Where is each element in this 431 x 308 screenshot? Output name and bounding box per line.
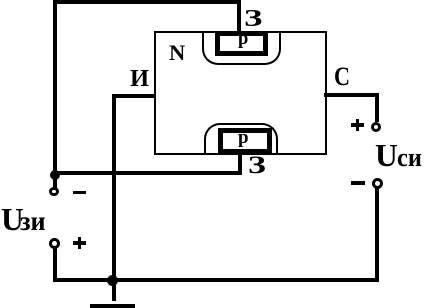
top p-region boundary [202, 33, 281, 65]
label p bottom [238, 128, 249, 147]
wire drain lead horizontal [324, 93, 379, 97]
wire stub junction to - terminal of Uzi [53, 175, 57, 188]
bottom gate p electrode rectangle [218, 128, 272, 154]
ground [90, 304, 135, 308]
wire source lead horizontal [112, 94, 156, 98]
wire top horizontal (gate bus) [53, 0, 242, 4]
label plus of Uzi [73, 241, 86, 245]
label plus of Usi [351, 123, 364, 127]
wire gate horizontal to bottom gate [53, 171, 242, 175]
wire source vertical down [112, 94, 116, 280]
label gate top Z [244, 7, 262, 32]
label minus of Usi [351, 181, 364, 185]
wire bottom rail [53, 278, 379, 282]
bottom p-region boundary [204, 123, 278, 154]
wire from + terminal of Uzi down [53, 248, 57, 280]
label source I [130, 67, 149, 92]
terminal - of Uzi [49, 187, 59, 197]
label gate bottom Z [248, 152, 266, 178]
wire from - terminal of Usi down [375, 188, 379, 280]
label Usi [375, 140, 398, 172]
wire left vertical (gate bus down) [53, 0, 57, 175]
transistor channel N-region body [154, 31, 327, 155]
wire bottom gate lead [238, 153, 243, 174]
label Uzi [1, 204, 24, 236]
wire top gate lead [237, 0, 241, 34]
terminal - of Usi [372, 178, 383, 189]
wire ground lead [112, 280, 116, 301]
terminal + of Uzi [49, 238, 60, 249]
terminal + of Usi [371, 122, 381, 132]
top gate p electrode rectangle [215, 31, 268, 56]
label minus of Uzi [73, 191, 87, 195]
label drain S [334, 64, 350, 90]
node junction dot gate/left [50, 170, 60, 180]
label p top [238, 30, 248, 49]
label N region [169, 42, 185, 65]
wire drain vertical down to + terminal [375, 93, 379, 122]
node junction dot bottom rail [107, 275, 118, 286]
